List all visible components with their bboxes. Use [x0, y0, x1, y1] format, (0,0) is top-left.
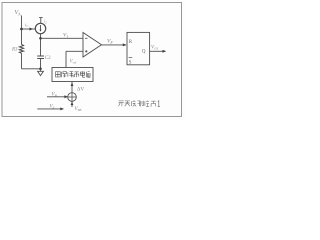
block label text (CJK drawn as vectors): 阈值调节电路 [56, 71, 90, 77]
current sensor U1 circle [35, 23, 45, 33]
label VS [50, 105, 55, 110]
wire op-amp output to R input [102, 44, 127, 46]
svg-text:V1: V1 [63, 33, 68, 39]
label i2 [44, 19, 47, 25]
wire VS arrow [37, 108, 63, 110]
wire summer to block (arrow up) [71, 82, 73, 93]
svg-text:VGS: VGS [151, 46, 159, 51]
wire VSB input arrow (bottom) [71, 101, 73, 107]
svg-text:VF: VF [107, 39, 113, 45]
svg-text:C2: C2 [45, 56, 51, 61]
wire Q output VGS [150, 50, 166, 52]
svg-text:R3: R3 [11, 48, 18, 53]
svg-text:VSB: VSB [75, 107, 82, 112]
wire V1 to op-amp minus input [41, 37, 84, 39]
label dV [77, 87, 84, 93]
sensor top stub [40, 18, 42, 24]
svg-text:S: S [129, 59, 132, 65]
wire op-amp plus input [66, 50, 83, 52]
regulator block: threshold adjust circuit [52, 68, 93, 82]
capacitor C2 [37, 55, 44, 57]
RS flip-flop U3 box [127, 32, 150, 64]
summer node circle [68, 93, 77, 102]
label iC [25, 22, 29, 28]
label V1 [63, 33, 68, 39]
wire VA down to node [21, 16, 23, 30]
node A junction dot [20, 28, 23, 31]
op-amp U2 [83, 33, 102, 58]
wire VB input arrow [47, 96, 68, 98]
svg-text:Vref: Vref [70, 60, 78, 65]
border frame [2, 3, 182, 117]
node V1 junction dot [39, 37, 42, 40]
label VF [107, 39, 113, 45]
ground junction dot [39, 68, 42, 71]
svg-text:VS: VS [50, 105, 55, 110]
wire node to sensor with current arrow iC [22, 28, 36, 30]
svg-text:VA: VA [15, 10, 22, 17]
resistor R3 [21, 29, 23, 45]
svg-text:ΔV: ΔV [77, 87, 84, 93]
svg-text:R: R [129, 39, 133, 45]
wire resistor bottom to ground node [22, 68, 41, 70]
label Vref [70, 60, 78, 65]
label VSB [75, 107, 82, 112]
svg-text:Q: Q [142, 49, 146, 55]
node VA label [15, 10, 22, 17]
svg-text:VB: VB [52, 93, 57, 98]
sensor internal down arrow [40, 25, 42, 30]
ground [40, 69, 42, 72]
label VB [52, 93, 57, 98]
wire sensor bottom down to ground [40, 34, 42, 56]
caption: switch control section 1 (CJK drawn as vectors) [119, 101, 160, 107]
